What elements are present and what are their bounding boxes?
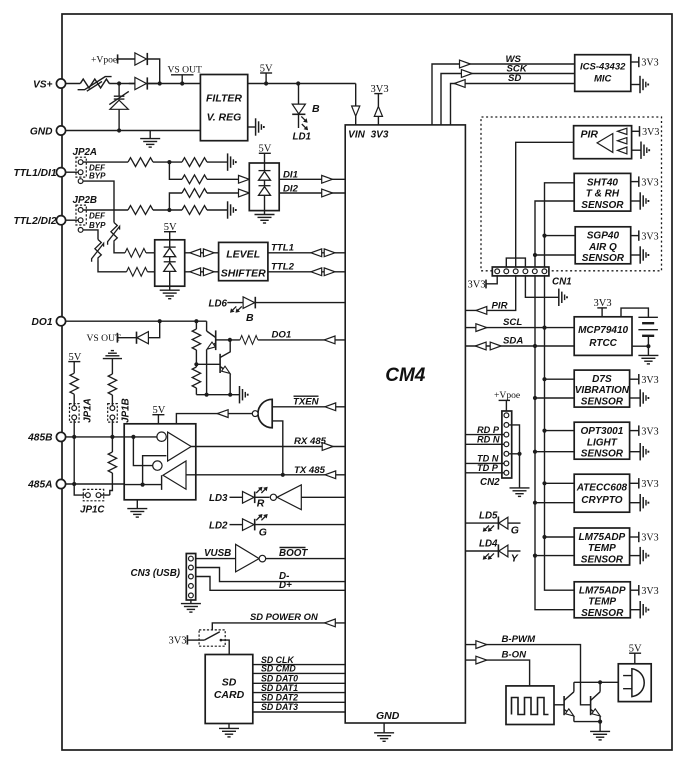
terminal VS+ [56,79,65,88]
voltage regulator U10 FILTER V.REG [200,75,247,141]
RS485 transceiver U4 box [124,424,196,500]
svg-text:CN3 (USB): CN3 (USB) [131,568,181,579]
ground (ATECC) [630,494,649,511]
wire TTL1/DI1 to JP2A [66,171,78,173]
bubble (U4 upper input) [124,432,166,441]
diode D1 (+Vpoe branch) [118,53,160,84]
3V3 flag (LM75a) [630,532,659,544]
terminal 485A [56,479,65,488]
svg-text:DO1: DO1 [272,330,292,341]
inverter U6 (BOOT) [236,544,266,572]
LM75ADP temp sensor box 1 [574,528,629,565]
ground (PIR) [632,142,650,159]
ground (CN3) [181,600,201,612]
wire LD3 inverter to CM4 [301,496,345,498]
svg-text:JP2B: JP2B [73,195,98,206]
svg-text:SENSOR: SENSOR [581,554,624,565]
level shifter U2 [219,242,268,280]
wire TXEN to CM4 [272,406,345,408]
svg-text:RTCC: RTCC [589,338,617,349]
node 485A JP1C junction [72,482,76,486]
ATECC608 crypto box [574,474,629,512]
SGP40 sensor box [575,227,631,264]
wire NAND output to 485 box [176,414,252,424]
ground (FILTER right) [248,118,264,135]
wire JP1B to 485B [111,420,113,437]
wire PWM box to Q3 [554,704,564,706]
svg-text:CARD: CARD [214,689,245,701]
svg-text:PIR: PIR [492,300,508,311]
wire B-ON [465,660,529,686]
svg-text:TXEN: TXEN [293,397,320,408]
terminal 485B [56,432,65,441]
ground (buzzer driver) [590,722,610,740]
svg-text:SENSOR: SENSOR [581,200,624,211]
svg-text:TTL2: TTL2 [271,262,295,273]
svg-text:CN2: CN2 [480,477,500,488]
diode D5 [259,186,271,196]
LED LD6 [227,297,345,313]
3V3 flag (D7S) [630,374,659,386]
svg-text:JP2A: JP2A [73,147,98,158]
protection diode box DI1/DI2 [249,163,279,211]
svg-text:LD4: LD4 [479,538,498,549]
resistor R17 [127,267,148,276]
NAND gate U3 [252,399,272,428]
battery BT1 [621,308,658,346]
wire 5V output [248,83,356,85]
svg-text:B: B [312,103,320,115]
arrow SD [454,80,465,88]
RTC U8 MCP79410 [574,317,632,356]
wire D- [196,568,346,582]
wire GND line [66,130,201,132]
wire VS+ line [66,83,201,85]
wire enable path [143,456,167,485]
node VSOUT-a junction [158,81,162,85]
arrow SCK [461,70,472,78]
ground (CN1) [559,289,567,306]
svg-text:VS+: VS+ [33,79,53,90]
resistor R23 [70,373,78,394]
node LD1 junction [296,81,300,85]
diode D4 [259,171,271,181]
svg-text:JP1C: JP1C [80,504,105,515]
svg-text:FILTER: FILTER [206,93,242,105]
wire SCK vertical [441,74,575,125]
wire RD N [465,443,503,445]
wire R24 to JP1B [111,395,113,406]
svg-text:485B: 485B [27,433,52,444]
PIR amp triangle [597,134,613,153]
jumper JP1C [83,489,103,500]
svg-text:VIBRATION: VIBRATION [575,385,630,396]
wire 485A to JP1C [74,484,85,495]
resistor R12 [182,175,207,184]
svg-text:JP1B: JP1B [121,398,132,423]
svg-text:ATECC608: ATECC608 [576,482,628,493]
arrow TXEN [325,403,336,411]
wire JP1A to 485B/485A [73,420,75,484]
wire JP2A bypass [83,181,155,253]
5V flag (diode box1) [259,144,272,163]
svg-text:TTL2/DI2: TTL2/DI2 [13,216,56,227]
wire PIR output column [516,142,574,267]
node SGP40 SDA junction [533,253,537,257]
wire TTL1 to CM4 [268,252,345,254]
inverted ground flag (JP1B) [103,351,122,359]
switch SW1 [199,630,229,655]
jumper JP1A [70,404,80,423]
node SDA junction [533,344,537,348]
wire SCL to CM4 [465,327,574,329]
inverter U5 (LD3) [270,485,301,510]
svg-text:SGP40: SGP40 [587,231,620,242]
svg-text:3V3: 3V3 [169,635,187,646]
svg-text:B-ON: B-ON [502,650,528,661]
svg-text:SHT40: SHT40 [587,177,619,188]
terminal GND [56,126,65,135]
wire SHT40 SDA [535,201,574,255]
wire PIR to CM4 [465,276,515,311]
svg-text:TD P: TD P [477,463,499,473]
node JP2B row junction [167,208,171,212]
wire CN1 pin4 to ground [525,276,558,297]
arrow SCL [476,324,487,332]
+Vpoe flag (CN2) [494,390,520,411]
driver triangle (U4 upper) [168,432,192,461]
svg-text:SENSOR: SENSOR [581,608,624,619]
node emitter junction [598,720,602,724]
3V3 flag (MIC) [631,57,659,69]
svg-text:LIGHT: LIGHT [587,437,618,448]
svg-text:RD N: RD N [477,435,500,445]
svg-text:ICS-43432: ICS-43432 [580,61,626,72]
wire to lower bubble [133,437,152,466]
dotted sensor group box [481,117,662,271]
wire collector rail [574,681,618,683]
svg-text:VS OUT: VS OUT [168,65,203,76]
wire SD CMD [253,672,345,674]
transistor Q2 [196,340,231,395]
wire ATECC SDA [535,502,574,504]
arrow WS [460,60,471,68]
arrow PIR [476,307,487,315]
wire SDA column lower [535,346,574,610]
node LM75a SDA junction [533,554,537,558]
node DO1 divider top junction [194,319,198,323]
svg-text:LM75ADP: LM75ADP [579,532,626,543]
arrow RX485 [322,443,333,451]
svg-text:SDA: SDA [503,336,523,347]
ground (GND line) [140,131,160,148]
svg-text:GND: GND [30,126,53,137]
node ATECC SCL junction [542,481,546,485]
OPT3001 sensor box [574,422,629,459]
LED LD3 [230,487,270,503]
svg-text:R: R [257,498,265,510]
arrow B-PWM [476,641,487,649]
terminal TTL2/DI2 [56,216,65,225]
svg-text:VUSB: VUSB [204,548,231,559]
wire NAND input2 from TX485 [272,421,283,475]
transistor Q1 [205,321,230,395]
wire CN2 pin2-pin5 tie [509,425,519,454]
wire TTL2/DI2 to JP2B [66,219,78,221]
resistor R11 [182,158,207,167]
svg-text:TTL1: TTL1 [271,243,294,254]
node ATECC SDA junction [533,501,537,505]
3V3 flag (PIR) [632,126,660,138]
svg-text:SCL: SCL [503,317,522,328]
VS OUT flag (top) [168,65,203,84]
bidir arrows row1 [190,249,214,257]
arrow SD POWER ON [325,619,336,627]
ground (SD card) [219,724,239,737]
node JP2A row junction [167,160,171,164]
ground (OPT3001) [630,443,649,460]
fuse F2 [108,223,120,245]
node Q2 emitter rail junction [228,393,232,397]
svg-text:OPT3001: OPT3001 [580,426,623,437]
wire SGP40 SDA [535,254,575,256]
svg-text:Y: Y [511,553,519,565]
ground (JP2A row) [228,153,236,170]
transistor Q3 [564,682,575,721]
wire D7S SDA [535,397,574,399]
wire SD DAT3 [253,711,345,713]
fuse F1 thermistor [78,77,112,92]
svg-text:SD: SD [222,676,237,688]
wire gnd flag to R24 [111,359,113,374]
wire TD N [465,462,503,464]
svg-text:DEF: DEF [89,212,106,221]
node D7S SCL junction [542,377,546,381]
wire SD vertical [451,84,575,125]
wire OPT3001 SDA [535,451,574,453]
label BOOT overline [279,548,308,559]
jumper JP1B [108,404,118,423]
resistor R10 [128,158,153,167]
svg-text:VIN: VIN [348,129,365,140]
wire RD P [465,434,503,436]
3V3 entry flag+arrow [371,84,389,125]
resistor R22 [240,336,258,345]
svg-text:LD1: LD1 [293,132,312,143]
diode D8 [117,321,159,344]
svg-text:TEMP: TEMP [588,543,616,554]
bubble (U4 lower) [153,461,162,470]
connector CN3 [186,554,195,601]
wire TTL2 to CM4 [268,271,345,273]
wire WS vertical [432,64,575,125]
PIR sensor box [574,126,632,159]
svg-text:JP1A: JP1A [83,398,94,423]
wire LM75a SDA [535,555,574,557]
arrow into DI1 [239,175,250,183]
LED LD5 [465,517,520,532]
3V3 flag (ATECC) [630,478,659,490]
arrow TX485 [325,471,336,479]
node DO1-vsout junction [158,319,162,323]
wire SDA column upper [534,255,536,346]
protection diode box (level shifter) [155,240,185,286]
diode D7 [164,262,176,272]
VIN entry arrow [352,84,360,125]
wire LM75a SCL [545,536,575,538]
LED LD1 [292,84,308,131]
wire SD CLK [253,664,345,666]
svg-text:+Vpoe: +Vpoe [494,390,520,401]
transistor Q4 [591,682,602,721]
wire JP2B bypass [83,230,155,272]
3V3 flag (SHT40) [631,176,659,188]
jumper JP2B [76,205,86,232]
bidir arrows row2 [190,268,214,276]
svg-text:T & RH: T & RH [586,189,620,200]
node DO1 base junction [228,338,232,342]
ground (D7S) [630,389,649,406]
svg-text:LD2: LD2 [209,520,228,531]
ground (JP2B row) [228,201,236,218]
wire DI1 to CM4 [279,178,345,180]
svg-text:LD6: LD6 [209,299,228,310]
resistor R25 [101,437,117,495]
node LM75a SCL junction [542,535,546,539]
wire 485B line [66,436,125,438]
node SCL junction [542,326,546,330]
wire B-PWM [465,645,590,705]
svg-text:SENSOR: SENSOR [581,449,624,460]
wire 485A line [66,483,125,485]
LM75ADP temp sensor box 2 [574,582,630,619]
svg-text:SD DAT2: SD DAT2 [261,693,298,703]
wire R23 to JP1A [73,394,75,405]
wire SD DAT0 [253,682,345,684]
svg-text:G: G [259,527,267,539]
wire SD POWER ON [212,623,345,630]
svg-text:BYP: BYP [89,221,106,230]
arrow DI1 [322,175,333,183]
5V flag (JP1A) [68,352,81,373]
svg-text:LM75ADP: LM75ADP [579,585,626,596]
wire box2 to level shifter row2 [185,271,219,273]
fuse F3 [92,240,104,262]
resistor R24 [108,374,116,395]
wire ATECC SCL [545,482,575,484]
diode D2 (VS+ branch) [129,77,160,89]
wire DO1 terminal line [66,320,207,322]
arrow DO1 [324,336,335,344]
SHT40 sensor box [574,173,631,211]
wire CN1 staple pins2-4 [506,258,525,267]
svg-text:SD DAT1: SD DAT1 [261,683,298,693]
svg-text:V. REG: V. REG [207,112,242,124]
wire SCL column upper [544,236,546,328]
node 485B JP1A junction [72,435,76,439]
ground (SGP40) [631,246,649,263]
svg-text:TTL1/DI1: TTL1/DI1 [13,168,56,179]
wire SD DAT1 [253,692,345,694]
arrow into DI2 [239,189,250,197]
wire D7S SCL [545,378,575,380]
wire emitter rail [574,721,600,723]
node OPT3001 SCL junction [542,429,546,433]
connector CN2 [502,411,512,478]
node 485B JP1B junction [110,435,114,439]
svg-text:D+: D+ [279,580,292,591]
wire BOOT to CM4 [266,558,346,560]
5V flag (485 box) [152,405,165,424]
wire RTCC to battery [632,345,648,347]
ground (diode box1) [255,211,275,223]
svg-text:B-PWM: B-PWM [502,634,537,645]
3V3 flag (CN1) [468,276,498,291]
node 5V junction [264,81,268,85]
resistor R16 [125,248,146,257]
arrow DI2 [322,189,333,197]
node CN2 tie junction [517,452,521,456]
wire RX485 to CM4 [191,446,345,448]
VS OUT flag (DO1) [87,333,122,344]
wire JP2B pin1 row [83,209,227,211]
wire 485A inside [124,475,161,490]
terminal TTL1/DI1 [56,168,65,177]
wire SDA to CM4 [465,345,574,347]
receiver triangle (U4 lower) [163,461,186,489]
wire DI2 to CM4 [279,192,345,194]
resistor R14 [182,206,207,215]
ground (CM4) [374,723,394,741]
node Q1 emitter rail junction [205,393,209,397]
svg-text:BOOT: BOOT [279,548,308,559]
node battery junction [646,344,650,348]
svg-text:D7S: D7S [592,374,612,385]
svg-text:SHIFTER: SHIFTER [221,267,266,279]
node GND junction [117,128,121,132]
resistor R15 [182,189,207,198]
svg-text:SENSOR: SENSOR [581,397,624,408]
ground (485 box) [127,500,147,517]
ground (MIC) [631,76,648,93]
node 485B inside junction [131,435,135,439]
buzzer box [618,664,651,702]
svg-text:SD: SD [508,73,521,84]
svg-text:AIR Q: AIR Q [588,242,617,253]
wire OPT3001 SCL [545,430,575,432]
wire JP2B branch to DI2 [169,193,239,210]
label TXEN overline [293,396,320,407]
wire SD DAT2 [253,701,345,703]
node D7S SDA junction [533,396,537,400]
bidir arrows TTL1 [311,249,335,257]
+Vpoe power flag [91,54,118,65]
3V3 flag (switch) [169,635,200,646]
svg-text:SENSOR: SENSOR [582,253,625,264]
svg-text:GND: GND [376,710,400,722]
wire JP2A pin1 row [83,161,227,163]
3V3 flag (LM75b) [630,585,658,597]
jumper JP2A [76,157,86,183]
ground (DO1 rail) [240,386,248,403]
D7S sensor box [574,370,630,407]
svg-text:TEMP: TEMP [588,597,616,608]
arrow NAND out [217,410,228,418]
svg-text:SD POWER ON: SD POWER ON [250,611,318,622]
node DO1 divider mid junction [194,362,198,366]
arrow B-ON [476,656,487,664]
ground (SHT40) [631,192,649,209]
